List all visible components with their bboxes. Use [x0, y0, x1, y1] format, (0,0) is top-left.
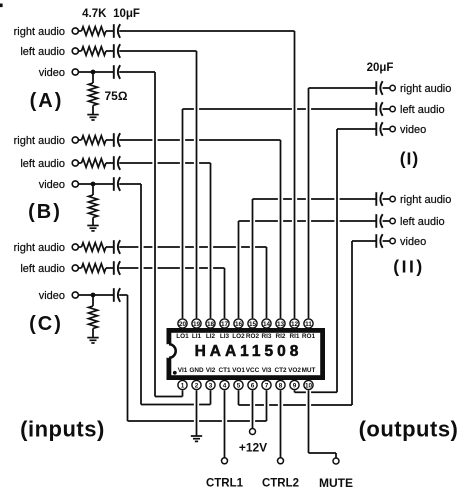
- svg-text:LO1: LO1: [176, 333, 189, 340]
- svg-text:(II): (II): [393, 257, 424, 277]
- svg-text:6: 6: [251, 382, 255, 389]
- svg-text:CTRL1: CTRL1: [206, 478, 244, 490]
- svg-text:CT1: CT1: [218, 367, 231, 374]
- svg-text:3: 3: [209, 382, 213, 389]
- svg-text:(B): (B): [28, 201, 62, 223]
- svg-text:(I): (I): [400, 149, 420, 169]
- svg-text:(C): (C): [29, 313, 63, 335]
- svg-text:11: 11: [305, 321, 312, 328]
- svg-text:VO2: VO2: [288, 367, 301, 374]
- svg-text:19: 19: [193, 321, 201, 328]
- svg-text:CT2: CT2: [274, 367, 287, 374]
- svg-text:RI1: RI1: [290, 333, 300, 340]
- svg-text:left audio: left audio: [400, 216, 445, 228]
- svg-text:VO1: VO1: [232, 367, 245, 374]
- svg-text:MUT: MUT: [302, 367, 316, 374]
- svg-text:20: 20: [179, 321, 187, 328]
- svg-text:video: video: [39, 290, 65, 302]
- svg-text:MUTE: MUTE: [319, 476, 353, 490]
- svg-text:left audio: left audio: [400, 104, 445, 116]
- svg-text:HAA11508: HAA11508: [195, 343, 303, 360]
- svg-text:LI2: LI2: [206, 333, 216, 340]
- svg-text:left audio: left audio: [20, 263, 65, 275]
- svg-text:14: 14: [263, 321, 271, 328]
- svg-text:9: 9: [293, 382, 297, 389]
- svg-text:12: 12: [291, 321, 299, 328]
- svg-text:video: video: [39, 179, 65, 191]
- svg-text:75Ω: 75Ω: [105, 89, 128, 103]
- svg-text:(inputs): (inputs): [20, 417, 105, 442]
- svg-text:right audio: right audio: [14, 135, 65, 147]
- svg-text:VI1: VI1: [178, 367, 188, 374]
- svg-text:15: 15: [249, 321, 257, 328]
- svg-text:7: 7: [265, 382, 269, 389]
- svg-text:LI1: LI1: [192, 333, 202, 340]
- svg-text:1: 1: [181, 382, 185, 389]
- svg-text:(A): (A): [30, 90, 64, 112]
- svg-text:LO2: LO2: [232, 333, 245, 340]
- svg-text:VI2: VI2: [206, 367, 216, 374]
- svg-text:right audio: right audio: [14, 242, 65, 254]
- svg-text:8: 8: [279, 382, 283, 389]
- svg-text:right audio: right audio: [400, 194, 451, 206]
- svg-text:video: video: [39, 67, 65, 79]
- svg-text:right audio: right audio: [400, 83, 451, 95]
- svg-text:RI2: RI2: [276, 333, 286, 340]
- svg-text:left audio: left audio: [20, 158, 65, 170]
- svg-text:VCC: VCC: [246, 367, 260, 374]
- svg-text:CTRL2: CTRL2: [262, 478, 299, 490]
- svg-text:16: 16: [235, 321, 243, 328]
- svg-text:18: 18: [207, 321, 215, 328]
- svg-text:left audio: left audio: [20, 46, 65, 58]
- svg-text:LI3: LI3: [220, 333, 230, 340]
- svg-text:2: 2: [195, 382, 199, 389]
- svg-text:13: 13: [277, 321, 285, 328]
- svg-text:video: video: [400, 236, 426, 248]
- svg-text:10: 10: [305, 382, 313, 389]
- svg-text:17: 17: [221, 321, 229, 328]
- svg-text:+12V: +12V: [239, 441, 267, 455]
- svg-text:RI3: RI3: [262, 333, 272, 340]
- svg-text:right audio: right audio: [14, 26, 65, 38]
- svg-text:GND: GND: [189, 367, 204, 374]
- svg-text:VI3: VI3: [262, 367, 272, 374]
- svg-text:20μF: 20μF: [367, 62, 394, 74]
- svg-text:5: 5: [237, 382, 241, 389]
- svg-text:4: 4: [223, 382, 227, 389]
- svg-text:4.7K: 4.7K: [82, 8, 107, 20]
- svg-text:10μF: 10μF: [113, 8, 140, 20]
- svg-text:RO2: RO2: [246, 333, 260, 340]
- svg-text:RO1: RO1: [302, 333, 316, 340]
- svg-text:video: video: [400, 124, 426, 136]
- svg-text:(outputs): (outputs): [359, 417, 459, 442]
